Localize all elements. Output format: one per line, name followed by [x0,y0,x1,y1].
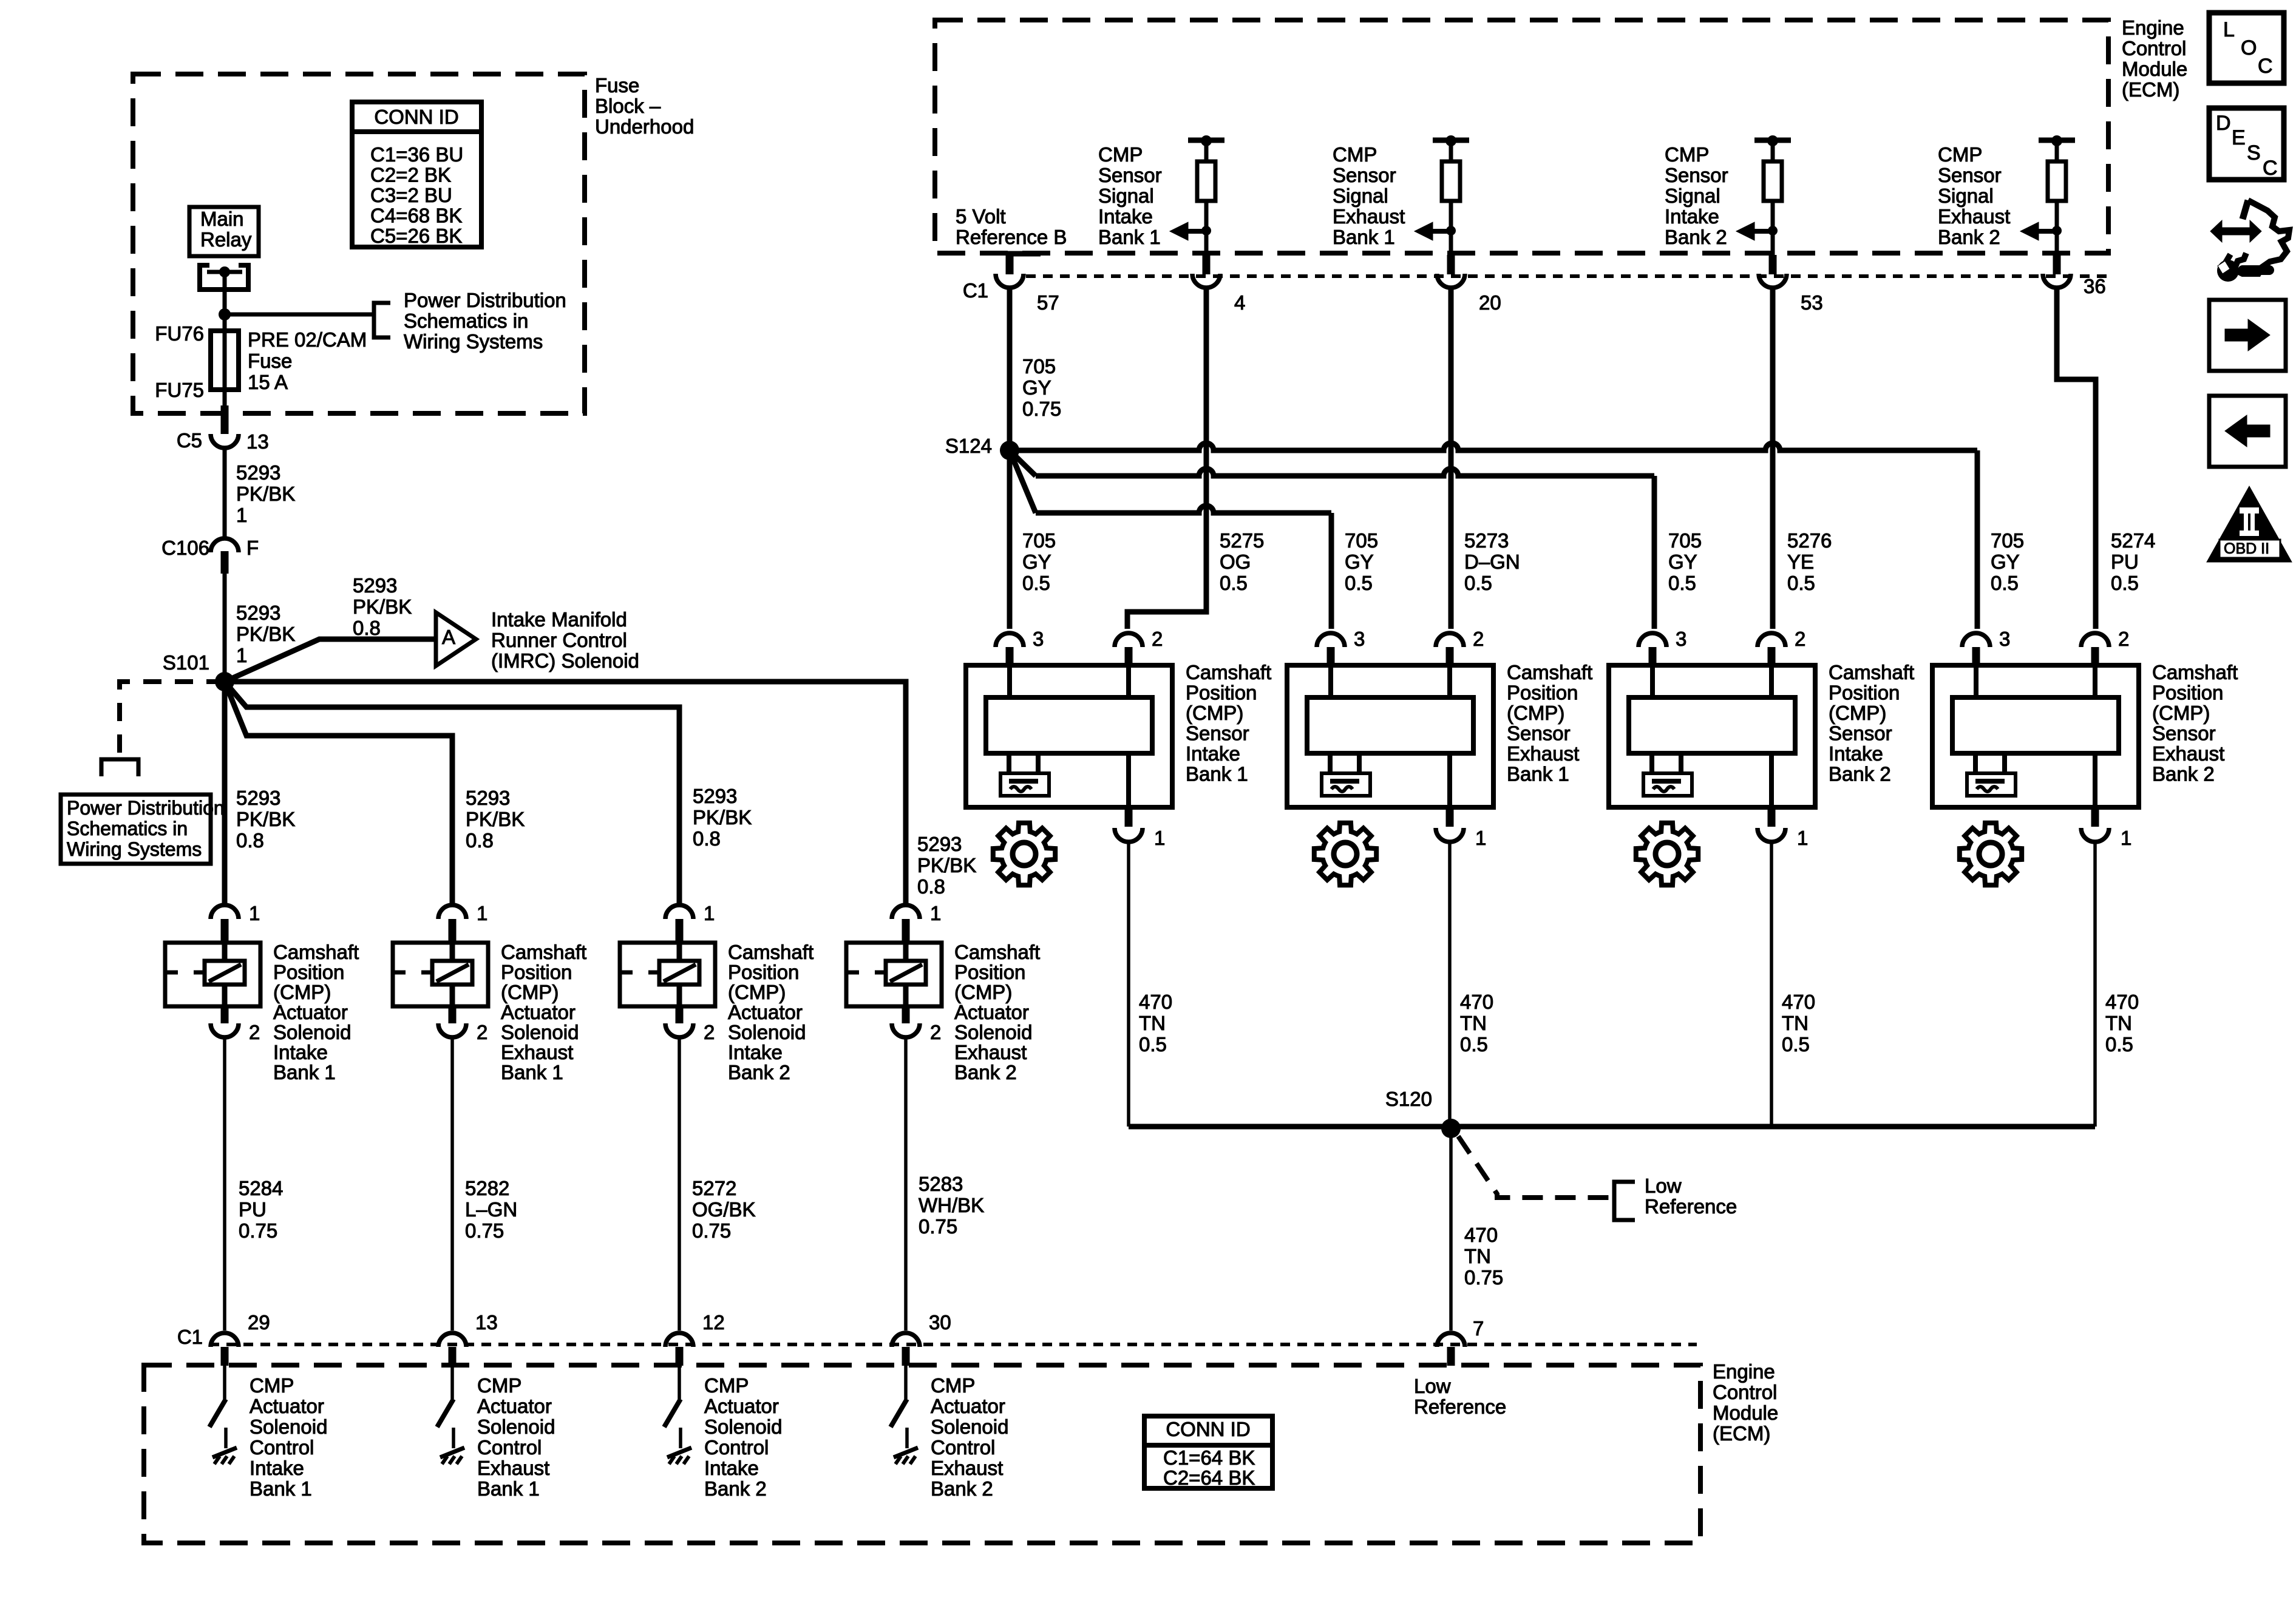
svg-text:PK/BK: PK/BK [693,806,752,829]
svg-text:TN: TN [1782,1012,1809,1034]
connector C1 dotted line (bottom ECM) [209,1343,1697,1346]
svg-text:Schematics in: Schematics in [404,310,528,332]
svg-text:0.8: 0.8 [917,875,945,898]
svg-text:Bank 1: Bank 1 [477,1477,540,1500]
svg-text:Position: Position [1186,682,1257,704]
svg-text:S: S [2247,141,2261,164]
wire 705 GY 0.5 branch to sensor exhaust bank 1 pin 3 [1010,450,1036,513]
svg-text:Bank 2: Bank 2 [954,1061,1017,1083]
connector pin 1 of CMP actuator solenoid 1 [211,905,239,919]
svg-text:12: 12 [702,1311,725,1334]
svg-text:0.5: 0.5 [1345,572,1373,594]
svg-text:Actuator: Actuator [250,1395,324,1417]
sensor 1 internal element [1007,665,1012,697]
svg-text:Camshaft: Camshaft [501,941,586,963]
svg-text:(CMP): (CMP) [501,981,559,1003]
connector pin 1 of CMP sensor 1 [1125,807,1133,827]
svg-text:CMP: CMP [931,1374,975,1397]
svg-text:0.8: 0.8 [466,829,494,852]
svg-text:0.5: 0.5 [1464,572,1492,594]
svg-text:0.5: 0.5 [1460,1033,1488,1056]
svg-text:Exhaust: Exhaust [931,1457,1003,1479]
svg-text:470: 470 [1464,1224,1498,1246]
svg-text:A: A [442,626,455,648]
connector pin 3 of CMP sensor 4 [1962,633,1990,647]
svg-text:Camshaft: Camshaft [954,941,1040,963]
svg-text:Wiring Systems: Wiring Systems [67,838,202,860]
svg-text:CMP: CMP [704,1374,749,1397]
svg-text:CONN ID: CONN ID [374,106,458,128]
wire 470 TN 0.5 from sensor 3 pin 1 [1770,843,1773,1127]
svg-text:Camshaft: Camshaft [1829,661,1914,683]
svg-text:Intake: Intake [273,1041,328,1063]
svg-text:PU: PU [2111,551,2139,573]
reluctor gear icon of sensor 1 [993,823,1055,885]
svg-text:Solenoid: Solenoid [477,1415,555,1438]
svg-text:Bank 2: Bank 2 [728,1061,790,1083]
svg-text:5273: 5273 [1464,529,1509,552]
wire 5275 OG 0.5 (pin 4 to sensor intake bank 1 pin 2) [1127,289,1206,629]
svg-text:Position: Position [2152,682,2223,704]
signal arrow junction dot 1 [1201,226,1211,236]
svg-text:Exhaust: Exhaust [1507,742,1579,765]
svg-text:Sensor: Sensor [1829,722,1892,745]
signal arrow 1 [1187,229,1206,234]
svg-text:0.75: 0.75 [1464,1266,1503,1289]
svg-text:5293: 5293 [236,602,280,624]
wire 5273 D-GN 0.5 (pin 20 to sensor exhaust bank 1 pin 2) [1449,289,1454,629]
svg-text:C1=36 BU: C1=36 BU [370,143,463,166]
connector pin 1 of CMP actuator solenoid 3 [665,905,693,919]
wire 705 GY 0.5 branch to sensor exhaust bank 2 pin 3 [1010,443,1977,450]
connector C1 pin 12 (bottom ECM) [665,1333,693,1347]
connector pin 3 of CMP sensor 3 [1639,633,1666,647]
junction dot at relay terminal [219,266,230,277]
svg-text:TN: TN [2105,1012,2132,1034]
svg-text:5293: 5293 [353,574,397,597]
solenoid coil with slash (solenoid 3) [659,961,699,985]
svg-text:Sensor: Sensor [1098,164,1162,186]
power distribution bracket [101,759,138,776]
svg-text:Actuator: Actuator [931,1395,1005,1417]
svg-text:1: 1 [249,902,260,924]
svg-text:5284: 5284 [239,1177,283,1199]
connector C5 pin 13 [221,405,229,434]
sensor 3 internal element [1650,665,1655,697]
svg-text:1: 1 [2121,827,2131,849]
svg-text:705: 705 [1022,529,1056,552]
OBD II triangle icon [2207,486,2292,562]
wire 470 TN 0.5 from sensor 2 pin 1 [1448,843,1452,1127]
connector C1 pin 30 (bottom ECM) [892,1333,920,1347]
wire 5283 WH/BK 0.75 [904,1039,908,1331]
svg-text:0.75: 0.75 [1022,398,1061,420]
wire 5284 PU 0.75 [223,1039,226,1331]
svg-text:C3=2 BU: C3=2 BU [370,184,452,206]
connector pin 2 of CMP sensor 4 [2081,633,2109,647]
sensor 4 internal element [1974,665,1978,697]
svg-text:0.75: 0.75 [692,1219,731,1242]
svg-text:Control: Control [250,1436,314,1459]
svg-text:0.5: 0.5 [1668,572,1696,594]
connector pin 1 of CMP sensor 3 [1768,807,1776,827]
connector pin 2 of CMP sensor 1 [1115,633,1143,647]
wire S101 branch to CMP actuator solenoid exhaust bank 1 [225,682,452,906]
svg-text:Signal: Signal [1665,185,1720,207]
ground (driver 3) [679,1428,682,1448]
svg-text:TN: TN [1460,1012,1487,1034]
svg-text:Camshaft: Camshaft [1186,661,1271,683]
svg-text:Control: Control [1713,1381,1777,1403]
svg-text:Signal: Signal [1098,185,1154,207]
svg-text:Bank 1: Bank 1 [1098,226,1161,248]
svg-text:F: F [246,537,259,559]
svg-text:Wiring Systems: Wiring Systems [404,330,543,353]
svg-text:GY: GY [1022,551,1051,573]
svg-text:Sensor: Sensor [2152,722,2216,745]
dashed wire S101 to power distribution [120,682,225,758]
svg-text:Position: Position [1507,682,1578,704]
wire 470 TN 0.75 (S120 to pin 7) [1449,1128,1453,1331]
svg-text:Solenoid: Solenoid [273,1021,351,1043]
svg-text:(IMRC) Solenoid: (IMRC) Solenoid [491,649,639,672]
svg-text:CMP: CMP [1098,143,1143,166]
svg-text:Camshaft: Camshaft [728,941,813,963]
CMP actuator solenoid control driver 3 [678,1366,681,1399]
connector pin 1 of CMP actuator solenoid 2 [438,905,466,919]
svg-text:Intake: Intake [1829,742,1883,765]
DESC icon box [2209,108,2284,180]
wire S101 branch to CMP actuator solenoid exhaust bank 2 [225,682,906,906]
main relay connector bracket [200,265,248,290]
svg-text:OG: OG [1220,551,1251,573]
svg-text:PK/BK: PK/BK [917,854,976,876]
wire 5282 L-GN 0.75 [450,1039,454,1331]
svg-text:D–GN: D–GN [1464,551,1520,573]
svg-text:Engine: Engine [2122,16,2184,39]
svg-text:GY: GY [1991,551,2020,573]
svg-text:GY: GY [1668,551,1697,573]
svg-text:2: 2 [1795,628,1805,650]
connector C1 pin 36 (top ECM) [2055,231,2059,255]
svg-text:5283: 5283 [919,1173,963,1195]
svg-text:705: 705 [1022,355,1056,378]
svg-text:705: 705 [1345,529,1378,552]
svg-text:C: C [2263,157,2278,180]
svg-text:Runner Control: Runner Control [491,629,627,651]
svg-text:Position: Position [1829,682,1900,704]
svg-text:C5=26 BK: C5=26 BK [370,225,462,247]
svg-text:0.5: 0.5 [1139,1033,1167,1056]
svg-text:1: 1 [477,902,487,924]
CMP sensor signal pull-up resistor 2 inside ECM [1433,138,1469,143]
CMP sensor signal pull-up resistor 4 inside ECM [2039,138,2075,143]
junction dot to power distribution tap [219,308,231,320]
svg-text:5293: 5293 [693,785,737,807]
svg-text:1: 1 [236,504,247,526]
svg-text:0.5: 0.5 [1220,572,1248,594]
ground (driver 1) [224,1428,228,1448]
connector C1 pin 20 (top ECM) [1449,231,1453,255]
svg-text:(CMP): (CMP) [728,981,786,1003]
connector C1 pin 7 low reference (bottom ECM) [1437,1333,1465,1347]
svg-text:2: 2 [2118,628,2129,650]
svg-text:470: 470 [1139,991,1172,1013]
svg-text:CMP: CMP [1333,143,1377,166]
svg-text:PK/BK: PK/BK [236,808,295,830]
svg-text:0.8: 0.8 [236,829,264,852]
solenoid coil with slash (solenoid 2) [432,961,472,985]
IMRC solenoid triangle A [436,612,476,666]
svg-text:Bank 1: Bank 1 [1186,763,1248,785]
svg-text:2: 2 [477,1021,487,1043]
low reference callout bracket [1614,1182,1635,1220]
svg-text:OG/BK: OG/BK [692,1198,756,1221]
svg-text:5293: 5293 [917,833,962,855]
connector C1 pin 4 (top ECM) [1204,231,1209,255]
svg-text:Bank 2: Bank 2 [1829,763,1891,785]
reluctor gear icon of sensor 3 [1636,823,1698,885]
svg-text:C1: C1 [177,1326,203,1348]
main relay box [189,207,259,256]
svg-text:Bank 1: Bank 1 [250,1477,312,1500]
connector C1 pin 29 (bottom ECM) [211,1333,239,1347]
reluctor gear icon of sensor 2 [1314,823,1376,885]
svg-text:Bank 2: Bank 2 [931,1477,993,1500]
svg-text:5276: 5276 [1787,529,1832,552]
svg-text:CMP: CMP [250,1374,294,1397]
wire 5293 PK/BK 1 (C5 to C106) [223,449,227,539]
signal arrow 4 [2037,229,2057,234]
svg-text:E: E [2232,126,2246,149]
wire S101 branch to CMP actuator solenoid intake bank 1 [222,682,228,906]
svg-text:D: D [2216,112,2231,135]
svg-text:Signal: Signal [1938,185,1994,207]
CMP actuator solenoid Exhaust Bank 1 box [393,943,488,1006]
svg-text:(CMP): (CMP) [2152,702,2210,724]
svg-text:C4=68 BK: C4=68 BK [370,205,462,227]
svg-text:5 Volt: 5 Volt [956,205,1006,228]
svg-text:Fuse: Fuse [595,74,639,97]
power distribution callout bracket [374,303,390,337]
connector C1 pin 53 (top ECM) [1771,231,1775,255]
svg-text:Bank 1: Bank 1 [1507,763,1569,785]
svg-text:Module: Module [2122,58,2187,80]
wire 5276 YE 0.5 (pin 53 to sensor intake bank 2 pin 2) [1770,289,1776,629]
svg-text:Actuator: Actuator [728,1001,803,1023]
svg-text:Bank 2: Bank 2 [1938,226,2000,248]
svg-text:Power Distribution: Power Distribution [404,289,566,311]
svg-text:470: 470 [1782,991,1815,1013]
CMP actuator solenoid control driver 1 [223,1366,226,1399]
wire 705 GY 0.5 branch to sensor intake bank 2 pin 3 [1010,450,1036,476]
5 volt reference B wire corner inside ECM [1010,254,1041,274]
svg-text:53: 53 [1801,291,1823,314]
svg-text:Power Distribution: Power Distribution [67,797,225,819]
connector C1 pin 13 (bottom ECM) [438,1333,466,1347]
fuse block - underhood dashed box [133,74,585,413]
svg-text:29: 29 [248,1311,270,1334]
CMP actuator solenoid control driver 2 [450,1366,454,1399]
signal arrow junction dot 2 [1446,226,1456,236]
wire 470 TN 0.5 from sensor 4 pin 1 [2093,843,2097,1127]
svg-text:0.8: 0.8 [693,827,721,850]
right arrow icon box [2209,300,2286,371]
svg-text:(CMP): (CMP) [1507,702,1564,724]
ground (driver 2) [452,1428,455,1448]
svg-text:57: 57 [1037,291,1059,314]
svg-text:1: 1 [1154,827,1165,849]
svg-text:3: 3 [1033,628,1044,650]
svg-text:2: 2 [1152,628,1163,650]
svg-text:4: 4 [1234,291,1245,314]
svg-text:Exhaust: Exhaust [1938,205,2010,228]
svg-text:S120: S120 [1385,1088,1432,1110]
svg-text:Actuator: Actuator [954,1001,1029,1023]
svg-text:Solenoid: Solenoid [250,1415,327,1438]
svg-text:Solenoid: Solenoid [954,1021,1032,1043]
svg-text:(CMP): (CMP) [273,981,331,1003]
svg-text:2: 2 [704,1021,715,1043]
svg-text:Solenoid: Solenoid [501,1021,579,1043]
splice S101 [215,672,234,691]
connector pin 2 of CMP actuator solenoid 1 [221,1006,229,1023]
svg-text:Reference B: Reference B [956,226,1067,248]
CMP actuator solenoid control driver 4 [904,1366,908,1399]
svg-text:Main: Main [200,208,244,230]
svg-text:1: 1 [704,902,715,924]
svg-text:Solenoid: Solenoid [931,1415,1008,1438]
svg-text:C1: C1 [963,279,988,302]
connector pin 1 of CMP sensor 4 [2091,807,2099,827]
svg-text:PRE 02/CAM: PRE 02/CAM [248,328,367,351]
svg-text:5274: 5274 [2111,529,2155,552]
svg-text:0.75: 0.75 [239,1219,277,1242]
CMP actuator solenoid Intake Bank 2 box [620,943,715,1006]
svg-text:(ECM): (ECM) [2122,78,2179,101]
svg-text:Reference: Reference [1645,1195,1737,1218]
svg-text:Actuator: Actuator [704,1395,779,1417]
svg-text:(ECM): (ECM) [1713,1422,1770,1445]
svg-text:Engine: Engine [1713,1360,1775,1383]
svg-text:Intake: Intake [250,1457,304,1479]
sensor 2 internal element [1328,665,1333,697]
svg-text:Schematics in: Schematics in [67,818,188,839]
svg-text:Camshaft: Camshaft [1507,661,1592,683]
svg-text:Control: Control [477,1436,542,1459]
svg-text:TN: TN [1139,1012,1166,1034]
svg-text:Relay: Relay [200,228,252,251]
svg-text:0.75: 0.75 [919,1215,957,1238]
power distribution schematics box [61,795,211,864]
svg-text:S124: S124 [945,435,992,457]
svg-text:Reference: Reference [1414,1395,1506,1418]
svg-text:7: 7 [1473,1317,1484,1340]
dashed callout wire from S120 [1458,1136,1610,1198]
svg-text:PK/BK: PK/BK [236,483,295,505]
svg-text:Bank 2: Bank 2 [2152,763,2215,785]
signal arrow 2 [1432,229,1451,234]
wire relay to fuse [223,272,227,408]
connector C1 dotted line (top ECM) [1026,274,2108,278]
svg-text:OBD II: OBD II [2224,540,2269,557]
svg-text:0.5: 0.5 [2111,572,2139,594]
svg-text:C2=2 BK: C2=2 BK [370,164,451,186]
svg-text:Low: Low [1645,1175,1682,1197]
svg-text:Control: Control [2122,37,2186,59]
svg-text:Sensor: Sensor [1665,164,1728,186]
svg-text:1: 1 [1797,827,1808,849]
CMP sensor Exhaust Bank 2 box [1932,665,2139,807]
svg-text:Position: Position [728,961,799,983]
svg-text:Bank 1: Bank 1 [273,1061,336,1083]
svg-text:C: C [2258,55,2273,78]
svg-text:Signal: Signal [1333,185,1388,207]
svg-text:3: 3 [1354,628,1365,650]
signal arrow 3 [1753,229,1773,234]
connector pin 2 of CMP actuator solenoid 3 [676,1006,684,1023]
svg-text:Solenoid: Solenoid [728,1021,806,1043]
svg-text:0.5: 0.5 [2105,1033,2133,1056]
svg-text:CONN ID: CONN ID [1166,1418,1250,1440]
svg-text:Camshaft: Camshaft [2152,661,2238,683]
svg-text:3: 3 [1999,628,2010,650]
svg-text:705: 705 [1668,529,1702,552]
svg-text:Bank 2: Bank 2 [704,1477,767,1500]
ground (driver 4) [905,1428,909,1448]
svg-text:GY: GY [1345,551,1374,573]
wire 5274 PU 0.5 (pin 36 to sensor exhaust bank 2 pin 2) [2057,289,2096,629]
svg-text:5275: 5275 [1220,529,1264,552]
connector pin 1 of CMP sensor 2 [1446,807,1454,827]
fuse FU76/FU75 PRE 02/CAM 15 A [211,331,239,390]
svg-text:Position: Position [273,961,344,983]
connector C1 pin 57 [1006,255,1014,274]
svg-text:Intake Manifold: Intake Manifold [491,608,627,631]
wire S101 branch to CMP actuator solenoid intake bank 2 [225,682,679,906]
splice S124 [1000,441,1019,460]
svg-text:Intake: Intake [1186,742,1240,765]
svg-text:Block –: Block – [595,95,661,117]
svg-text:0.5: 0.5 [1022,572,1050,594]
connector pin 2 of CMP sensor 2 [1436,633,1464,647]
wire 5293 PK/BK 1 (C106 to S101) [223,574,227,682]
connector pin 3 of CMP sensor 2 [1317,633,1345,647]
svg-text:CMP: CMP [477,1374,521,1397]
svg-text:S101: S101 [163,651,209,674]
svg-text:L–GN: L–GN [465,1198,517,1221]
svg-text:Exhaust: Exhaust [2152,742,2224,765]
svg-text:(CMP): (CMP) [1186,702,1243,724]
svg-text:5282: 5282 [465,1177,509,1199]
wire 705 GY 0.75 (pin 57 to S124) [1007,289,1013,450]
svg-text:5293: 5293 [236,787,280,809]
connector pin 2 of CMP actuator solenoid 2 [449,1006,457,1023]
svg-text:5293: 5293 [466,787,510,809]
left arrow icon box [2209,396,2286,467]
svg-text:470: 470 [1460,991,1493,1013]
svg-text:3: 3 [1676,628,1686,650]
svg-text:Bank 1: Bank 1 [1333,226,1395,248]
svg-text:Intake: Intake [1098,205,1153,228]
svg-text:0.5: 0.5 [1782,1033,1810,1056]
wire fuse to connector C5 [223,390,227,408]
connector pin 2 of CMP sensor 3 [1758,633,1785,647]
svg-text:FU76: FU76 [155,322,204,345]
svg-text:CMP: CMP [1665,143,1709,166]
svg-text:Position: Position [954,961,1025,983]
engine control module (ECM) bottom dashed box [144,1365,1700,1543]
